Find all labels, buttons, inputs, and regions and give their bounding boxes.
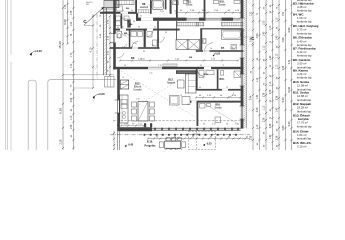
svg-text:90: 90 — [203, 123, 205, 125]
svg-text:75: 75 — [180, 95, 182, 97]
svg-text:4.10: 4.10 — [89, 47, 92, 52]
svg-text:B6.: B6. — [131, 57, 135, 60]
corridor dim line — [120, 60, 238, 62]
windows right wall — [241, 18, 244, 30]
pergola posts — [144, 134, 146, 136]
svg-text:90: 90 — [228, 137, 230, 139]
svg-text:1.20: 1.20 — [251, 11, 253, 16]
wall bath B7 left — [200, 29, 202, 52]
svg-text:1.41: 1.41 — [149, 73, 153, 75]
wall between gardrob and bath — [135, 0, 137, 13]
svg-text:1.35: 1.35 — [230, 48, 234, 50]
datum marker left boundary — [30, 53, 33, 56]
pergola beam line — [110, 134, 250, 136]
svg-text:1.10: 1.10 — [257, 77, 259, 82]
svg-text:kerámia lap: kerámia lap — [297, 76, 312, 80]
svg-text:2.26: 2.26 — [270, 123, 272, 128]
wardrobe boxes corridor — [176, 40, 188, 50]
door arcs small rooms — [121, 31, 127, 37]
outdoor table — [165, 141, 181, 148]
svg-text:75: 75 — [122, 77, 124, 79]
svg-text:1.13: 1.13 — [270, 81, 272, 86]
stair arrow — [84, 7, 104, 25]
svg-text:2.26: 2.26 — [60, 139, 63, 144]
wall x121.5 — [121, 14, 123, 29]
wall between B11 and B10 — [204, 0, 206, 18]
svg-text:75: 75 — [199, 48, 201, 50]
svg-text:1.13: 1.13 — [71, 115, 73, 120]
svg-text:Pergolás: Pergolás — [145, 143, 157, 147]
exterior wall left upper — [113, 0, 116, 34]
dim row above B16 — [196, 97, 243, 99]
svg-text:90: 90 — [199, 87, 201, 89]
door arc corridor mid — [160, 37, 165, 42]
toilet B15 — [221, 71, 224, 76]
wall y51.5 — [196, 50, 244, 52]
svg-text:90: 90 — [131, 46, 133, 48]
svg-text:90: 90 — [200, 65, 202, 67]
svg-text:Szoba: Szoba — [219, 3, 226, 6]
site boundary line 2 — [7, 0, 9, 150]
svg-text:90: 90 — [124, 65, 126, 67]
svg-text:90: 90 — [226, 123, 228, 125]
nightstands top rooms — [184, 0, 189, 3]
exterior wall left lower — [117, 68, 120, 127]
svg-text:90: 90 — [138, 27, 140, 29]
dimension chain line left mid — [67, 0, 69, 44]
stair wall hatch — [103, 9, 106, 12]
pier hatched — [127, 20, 130, 28]
svg-text:75: 75 — [222, 65, 224, 67]
wall B14 left — [196, 69, 198, 90]
diagonal across B16 — [205, 104, 239, 125]
svg-text:+0,00: +0,00 — [98, 92, 106, 96]
svg-text:B4.: B4. — [130, 23, 134, 26]
wall y29.5 — [113, 29, 180, 31]
chairs left — [132, 102, 137, 107]
dining table — [138, 102, 148, 122]
svg-text:Terasz: Terasz — [194, 133, 200, 136]
svg-text:9.30: 9.30 — [59, 108, 63, 114]
exterior side steps — [105, 77, 115, 88]
small room walls vertical — [129, 31, 131, 48]
twin sinks — [173, 1, 179, 5]
svg-text:75: 75 — [226, 87, 228, 89]
svg-text:1.13: 1.13 — [270, 25, 272, 30]
ridge dashed X — [121, 70, 195, 116]
insulation hatch right wall — [244, 0, 247, 2]
wall step connector — [136, 13, 138, 21]
wall B16 left — [197, 101, 199, 126]
main wall y68 — [113, 67, 243, 69]
svg-text:2.26: 2.26 — [264, 92, 266, 97]
svg-text:1.40: 1.40 — [270, 134, 272, 139]
wall bath right — [150, 0, 152, 14]
svg-text:-0,45: -0,45 — [128, 143, 134, 146]
svg-text:90: 90 — [210, 48, 212, 50]
svg-text:+0,00: +0,00 — [35, 49, 42, 53]
bottom-left wall corner — [117, 124, 152, 131]
door arc B16 — [228, 92, 234, 97]
level marker pergola — [125, 145, 127, 147]
freezer box — [124, 16, 129, 21]
bath B7 fixtures — [222, 30, 242, 39]
svg-text:B8.: B8. — [142, 3, 146, 6]
datum marker +0,00 garden — [93, 96, 95, 99]
overhang dashed line — [113, 120, 245, 122]
wall x178 — [176, 0, 178, 18]
svg-text:90: 90 — [165, 32, 167, 34]
tv board — [176, 70, 196, 74]
door jambs bottom — [144, 123, 146, 127]
svg-text:kerámia lap: kerámia lap — [297, 31, 312, 35]
B14 fixtures — [199, 71, 204, 78]
svg-text:90: 90 — [131, 10, 133, 12]
svg-text:2.10: 2.10 — [158, 65, 162, 67]
svg-text:15.30: 15.30 — [288, 86, 291, 93]
top dim row right — [176, 12, 243, 14]
svg-text:1.36: 1.36 — [65, 4, 67, 9]
svg-text:Szoba: Szoba — [214, 107, 222, 110]
svg-text:1.50: 1.50 — [283, 11, 285, 16]
door arc B14 — [197, 70, 204, 77]
exterior stair — [104, 0, 119, 7]
svg-text:90: 90 — [246, 137, 248, 139]
right dim chain lines — [252, 0, 254, 150]
svg-text:1.40: 1.40 — [270, 55, 272, 60]
svg-text:1.13: 1.13 — [264, 105, 266, 110]
svg-text:1.40: 1.40 — [257, 94, 259, 99]
svg-text:2.26: 2.26 — [277, 95, 279, 100]
svg-text:9.60: 9.60 — [63, 19, 67, 25]
right dim ticks — [252, 12, 254, 14]
svg-text:1.73: 1.73 — [71, 52, 73, 57]
dimension chain line left inner — [73, 0, 75, 150]
site boundary line 3 — [10, 0, 12, 54]
svg-text:2.04: 2.04 — [124, 18, 128, 20]
svg-text:2.26: 2.26 — [283, 65, 285, 70]
svg-text:2.26: 2.26 — [71, 97, 73, 102]
svg-text:6.80: 6.80 — [288, 27, 291, 32]
svg-text:2.04: 2.04 — [160, 11, 164, 13]
svg-text:1.30: 1.30 — [120, 27, 124, 29]
bathtub — [152, 0, 164, 10]
svg-text:1.13: 1.13 — [277, 64, 279, 69]
svg-text:Szoba: Szoba — [186, 3, 193, 6]
svg-text:kerámia lap: kerámia lap — [297, 20, 312, 24]
svg-text:B.16.: B.16. — [147, 140, 153, 144]
svg-text:90: 90 — [210, 137, 212, 139]
svg-text:B6.: B6. — [189, 57, 193, 59]
svg-text:1.36: 1.36 — [71, 10, 73, 15]
svg-text:1.10: 1.10 — [277, 17, 279, 22]
svg-text:B9.: B9. — [126, 8, 130, 10]
svg-text:5.30: 5.30 — [282, 97, 285, 102]
svg-text:kerámia lap: kerámia lap — [297, 54, 312, 58]
svg-text:75: 75 — [154, 27, 156, 29]
svg-text:3.10 m²: 3.10 m² — [297, 144, 307, 148]
door gap top-left — [121, 12, 129, 14]
armchairs — [170, 96, 180, 106]
mullions — [154, 128, 156, 131]
svg-text:2.26: 2.26 — [264, 117, 266, 122]
svg-text:75: 75 — [122, 10, 124, 12]
washer dryer — [116, 16, 121, 21]
svg-text:-0,25: -0,25 — [206, 142, 212, 145]
fence line to building — [63, 74, 114, 76]
svg-text:15.30: 15.30 — [58, 41, 62, 49]
stair landing lines — [104, 8, 113, 10]
svg-text:+0,00: +0,00 — [214, 53, 221, 56]
svg-text:Konyha: Konyha — [133, 88, 142, 91]
svg-text:Gardrob: Gardrob — [140, 6, 149, 9]
svg-text:2.26: 2.26 — [251, 135, 253, 140]
bath top wall — [200, 28, 243, 29]
svg-text:90: 90 — [133, 21, 135, 23]
glazed south wall — [152, 127, 241, 129]
sink B7 — [231, 45, 237, 50]
door arc living — [197, 69, 204, 76]
small cabinets B16 — [200, 104, 206, 109]
svg-text:1.40: 1.40 — [264, 31, 266, 36]
radiator corridor — [163, 64, 177, 67]
grid dash right — [244, 36, 253, 38]
svg-text:4.80: 4.80 — [282, 37, 285, 42]
sofa — [186, 74, 197, 93]
coffee table — [178, 80, 185, 88]
svg-text:75: 75 — [174, 11, 176, 13]
svg-text:1.10: 1.10 — [71, 63, 73, 68]
gardrob closet lines — [138, 9, 150, 11]
grid line C — [96, 14, 98, 79]
chairs right — [150, 102, 155, 107]
top wall right block — [176, 18, 244, 21]
svg-text:/28: /28 — [86, 4, 89, 6]
inner dim chain left — [109, 16, 111, 76]
svg-text:2.26: 2.26 — [277, 135, 279, 140]
svg-text:1.40: 1.40 — [277, 107, 279, 112]
right dim ticks extra — [252, 4, 254, 6]
left dimension ticks — [62, 7, 64, 9]
svg-text:1.70: 1.70 — [136, 99, 140, 101]
window lower-left wall — [117, 100, 120, 113]
dimension chain line left outer — [62, 0, 64, 150]
svg-text:1.90: 1.90 — [71, 21, 73, 26]
svg-text:5.30: 5.30 — [288, 121, 291, 126]
svg-text:3.40: 3.40 — [256, 107, 259, 112]
bottom-left tick chain — [113, 131, 115, 150]
svg-text:1.13: 1.13 — [277, 53, 279, 58]
stair side wall — [102, 8, 104, 76]
svg-text:2.10: 2.10 — [212, 123, 216, 125]
kitchen counter — [120, 95, 128, 123]
svg-text:kerámia lap: kerámia lap — [297, 124, 312, 128]
WC fixtures — [117, 32, 122, 38]
pantry shelves top-left — [117, 1, 135, 5]
svg-text:90: 90 — [192, 137, 194, 139]
closet strips corridor top — [177, 22, 199, 26]
svg-text:1.50: 1.50 — [264, 20, 266, 25]
svg-text:Nappali: Nappali — [167, 81, 176, 84]
svg-text:1.13: 1.13 — [264, 45, 266, 50]
garden path edge — [48, 80, 116, 150]
exterior wall right — [241, 0, 244, 129]
site boundary line 1 — [5, 0, 7, 150]
svg-text:2.26: 2.26 — [270, 89, 272, 94]
wall B14/B15 divider — [217, 69, 219, 90]
svg-text:C: C — [251, 36, 254, 41]
planter bar — [28, 80, 36, 150]
svg-text:1.50: 1.50 — [235, 123, 239, 125]
svg-text:90: 90 — [152, 45, 154, 47]
wall y47.8 — [110, 47, 160, 49]
svg-text:1.40: 1.40 — [277, 35, 279, 40]
wall x170 — [170, 0, 172, 14]
dim line x93 — [92, 14, 94, 88]
svg-text:7.44: 7.44 — [288, 59, 291, 64]
window W left — [112, 34, 114, 43]
wall y89.8 — [196, 89, 244, 91]
terrace right edge dashed — [195, 131, 197, 150]
terrace dashed outline — [189, 131, 216, 149]
corridor wall stub — [176, 21, 178, 40]
wall y101.5 B16 top — [190, 101, 243, 103]
svg-text:75: 75 — [125, 45, 127, 47]
svg-text:90: 90 — [143, 51, 145, 53]
terrace left edge — [116, 131, 118, 150]
svg-text:1.13: 1.13 — [257, 124, 259, 129]
bottom dim line — [148, 138, 250, 140]
svg-text:B15.: B15. — [220, 78, 225, 81]
svg-text:1.86: 1.86 — [71, 124, 73, 129]
chimney block — [120, 80, 129, 89]
dim connector y88 — [74, 87, 93, 89]
top wall left block — [100, 12, 137, 14]
svg-text:B7.: B7. — [221, 47, 225, 50]
toilet B7 — [203, 39, 206, 44]
openings in top wall — [187, 18, 200, 21]
svg-text:4.80: 4.80 — [282, 125, 285, 130]
svg-text:90: 90 — [156, 137, 158, 139]
svg-text:75: 75 — [140, 16, 142, 18]
svg-text:B14.: B14. — [204, 73, 209, 76]
svg-text:90: 90 — [187, 104, 189, 106]
level marker terrace — [203, 144, 205, 146]
